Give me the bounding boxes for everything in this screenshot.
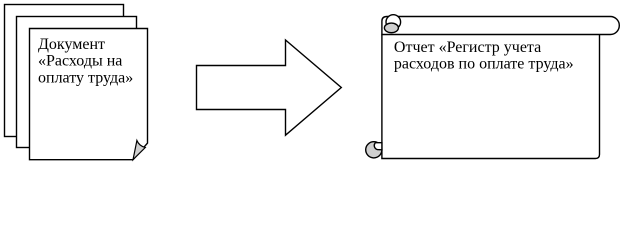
svg-text:Документ: Документ <box>38 36 105 53</box>
svg-text:расходов по оплате труда»: расходов по оплате труда» <box>394 55 574 72</box>
svg-text:оплату труда»: оплату труда» <box>38 69 133 86</box>
svg-text:Отчет «Регистр учета: Отчет «Регистр учета <box>394 39 541 56</box>
svg-text:«Расходы на: «Расходы на <box>38 53 122 70</box>
